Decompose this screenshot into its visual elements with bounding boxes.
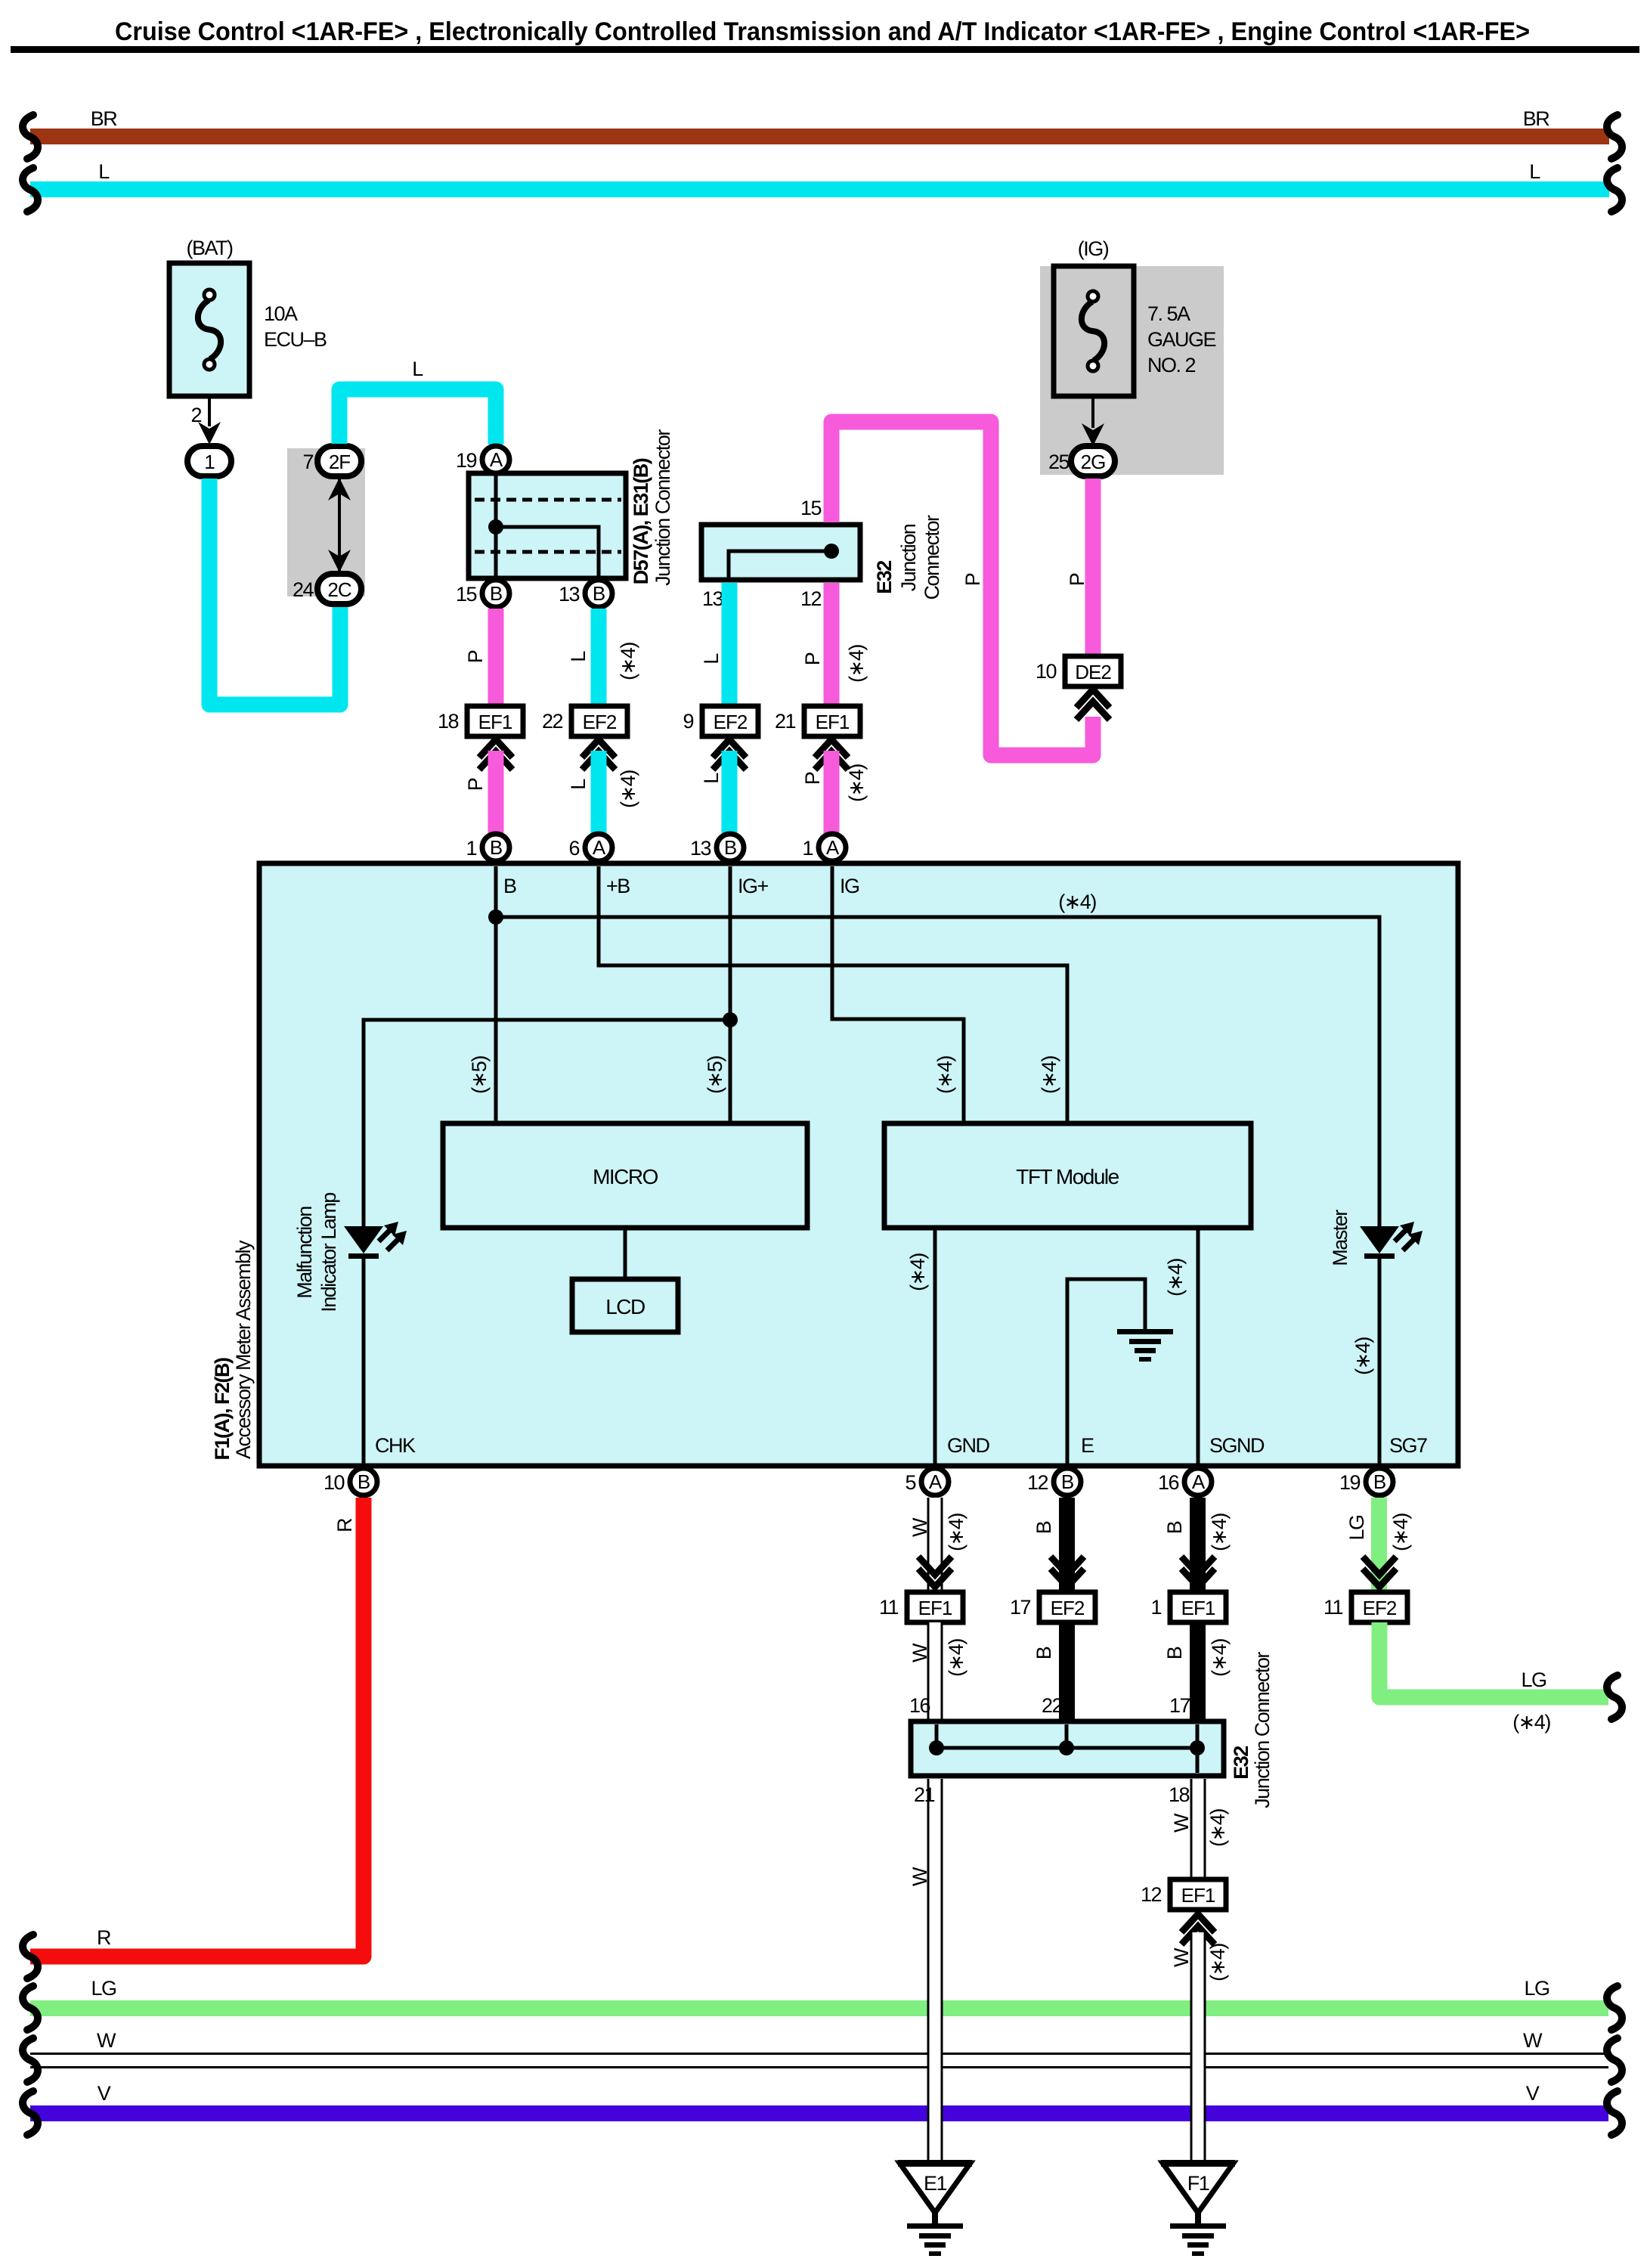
wire L bus (cyan) (23, 160, 1622, 212)
svg-text:A: A (929, 1470, 943, 1493)
svg-text:E: E (1081, 1434, 1094, 1457)
svg-text:(∗4): (∗4) (1351, 1337, 1374, 1375)
fuse holder box 2F/2C (grey) (287, 448, 365, 596)
net SGND internal (1164, 1228, 1198, 1464)
connector oval 2C (293, 574, 361, 604)
chevrons EF2 11 (1363, 1557, 1396, 1587)
pin 25 of fuse GAUGE (1048, 396, 1104, 473)
svg-text:19: 19 (1339, 1471, 1361, 1494)
wire L from EF2 to meter pin A6 (cyan) (567, 751, 639, 835)
svg-text:7: 7 (302, 451, 313, 473)
svg-text:B: B (358, 1470, 370, 1493)
svg-text:E32: E32 (873, 561, 896, 594)
label IG+ (738, 875, 769, 897)
svg-text:B: B (1163, 1521, 1186, 1534)
svg-text:12: 12 (800, 587, 822, 610)
svg-text:11: 11 (1323, 1596, 1343, 1619)
svg-text:6: 6 (568, 837, 579, 860)
connector EF2 11 (1323, 1592, 1407, 1622)
label CHK (375, 1434, 416, 1457)
wire W from E32 18 to EF1 12 (white) (1169, 1779, 1229, 1879)
svg-text:10A: 10A (264, 302, 298, 325)
svg-text:16: 16 (1158, 1471, 1179, 1494)
svg-text:L: L (700, 653, 723, 665)
label E32 top (873, 561, 896, 594)
title text (11, 17, 1639, 53)
label E32 bottom (1230, 1746, 1252, 1780)
label F1(A), F2(B) (211, 1358, 234, 1460)
svg-text:25: 25 (1048, 451, 1070, 473)
svg-text:(∗4): (∗4) (906, 1253, 929, 1291)
connector EF1 21 (775, 706, 860, 736)
label pin 15 E32 (800, 497, 822, 519)
svg-text:2: 2 (190, 404, 201, 426)
svg-text:B: B (490, 836, 502, 859)
wire W from EF1 11 to E32 16 (white) (909, 1622, 967, 1721)
svg-text:L: L (98, 160, 110, 183)
chevrons EF2 9 (713, 739, 746, 770)
svg-text:16: 16 (909, 1694, 930, 1717)
svg-text:(∗4): (∗4) (945, 1639, 967, 1677)
svg-text:P: P (961, 573, 984, 586)
svg-text:V: V (98, 2082, 111, 2105)
label Accessory Meter Assembly (232, 1240, 255, 1459)
wire LG from EF2 11 to right (light green) (1379, 1622, 1622, 1734)
connector EF1 11 (879, 1592, 963, 1622)
svg-text:EF1: EF1 (816, 711, 850, 733)
svg-text:IG+: IG+ (738, 875, 769, 897)
label pin 13 E32 (702, 587, 723, 610)
connector EF2 22 (542, 706, 627, 736)
svg-text:Junction Connector: Junction Connector (652, 429, 674, 586)
svg-text:EF1: EF1 (918, 1597, 952, 1619)
ground symbol internal (1117, 1329, 1173, 1362)
svg-text:12: 12 (1141, 1883, 1162, 1906)
wire LG from meter B19 to EF2 (light green) (1345, 1498, 1412, 1592)
svg-text:1: 1 (204, 451, 215, 473)
wire W from meter A5 to EF1 (white) (909, 1498, 967, 1592)
label IG (840, 875, 859, 897)
block TFT Module (884, 1123, 1251, 1228)
svg-text:10: 10 (1036, 660, 1057, 683)
meter pin A 1 (802, 834, 846, 861)
svg-text:B: B (503, 875, 516, 897)
svg-text:13: 13 (690, 837, 711, 860)
svg-text:F1: F1 (1187, 2172, 1209, 2195)
svg-text:(∗4): (∗4) (845, 645, 868, 683)
wire R bus (red) (23, 1498, 364, 1978)
wire L from E32 13 to EF2 (cyan) (700, 583, 729, 706)
wire P from E32 12 to EF1 (pink) (801, 583, 868, 706)
connector EF2 9 (683, 706, 758, 736)
svg-text:(∗4): (∗4) (617, 770, 639, 808)
internal wire D57 (488, 475, 599, 576)
label E32 Connector (921, 515, 943, 600)
block LCD (572, 1279, 678, 1332)
connector EF2 17 (1010, 1592, 1095, 1622)
svg-text:7. 5A: 7. 5A (1147, 302, 1190, 325)
svg-text:(∗5): (∗5) (704, 1056, 726, 1094)
svg-text:W: W (1523, 2029, 1543, 2052)
svg-text:LG: LG (1524, 1977, 1549, 2000)
svg-text:D57(A), E31(B): D57(A), E31(B) (630, 458, 652, 584)
meter pin B 13 (690, 834, 744, 861)
svg-text:(∗4): (∗4) (1164, 1259, 1187, 1297)
svg-text:A: A (593, 836, 606, 859)
svg-text:Junction: Junction (897, 524, 920, 591)
wire BR bus (brown) (23, 107, 1622, 159)
svg-text:Connector: Connector (921, 515, 943, 600)
wire MICRO to LCD (624, 1228, 627, 1279)
svg-text:13: 13 (559, 583, 580, 606)
label B (503, 875, 516, 897)
label D57 Junction Connector (652, 429, 674, 586)
connector oval 1 (187, 446, 231, 476)
svg-text:21: 21 (775, 710, 796, 733)
wire L from connector 1 to 2C (cyan) (209, 479, 340, 705)
wire W from EF1 12 to ground F1 (white) (1170, 1932, 1229, 2163)
wire V bus (violet) (23, 2082, 1622, 2135)
meter pin B 1 (466, 834, 509, 861)
svg-text:(∗4): (∗4) (1206, 1809, 1229, 1847)
svg-text:W: W (97, 2029, 116, 2052)
fuse F2 7.5A GAUGE NO.2 (IG) (1054, 237, 1216, 396)
svg-text:B: B (724, 836, 736, 859)
svg-text:EF1: EF1 (478, 711, 512, 733)
fuse F1 10A ECU-B (BAT) (169, 237, 327, 396)
svg-text:R: R (333, 1518, 356, 1532)
svg-text:MICRO: MICRO (593, 1165, 658, 1188)
label +B (606, 875, 630, 897)
wire B from meter A16 to EF1 (black) (1163, 1498, 1231, 1592)
svg-text:22: 22 (1042, 1694, 1063, 1717)
svg-text:B: B (1032, 1647, 1055, 1659)
label E32 Junction (897, 524, 920, 591)
svg-text:+B: +B (606, 875, 630, 897)
accessory meter assembly box (259, 863, 1458, 1466)
wire P from 2G to DE2 (pink) (1085, 479, 1101, 656)
net +B internal (599, 866, 1067, 1123)
svg-text:18: 18 (438, 710, 459, 733)
svg-text:(BAT): (BAT) (187, 237, 233, 259)
svg-text:W: W (909, 1643, 931, 1662)
svg-text:15: 15 (800, 497, 822, 519)
label GND (947, 1434, 990, 1457)
svg-text:GND: GND (947, 1434, 990, 1457)
svg-text:17: 17 (1010, 1596, 1031, 1619)
wire LG bus (light green) (23, 1977, 1622, 2030)
ground F1 (1161, 2160, 1235, 2256)
svg-text:B: B (490, 582, 502, 605)
svg-text:(∗4): (∗4) (1038, 1056, 1060, 1094)
label pin 12 E32 (800, 587, 822, 610)
svg-text:A: A (826, 836, 840, 859)
net GND internal (906, 1228, 935, 1464)
svg-text:5: 5 (905, 1471, 915, 1494)
junction connector E32 (top) box (701, 525, 860, 580)
svg-text:Master: Master (1329, 1210, 1351, 1266)
svg-text:12: 12 (1027, 1471, 1048, 1494)
svg-text:(∗5): (∗5) (468, 1056, 491, 1094)
net E internal (1067, 1279, 1145, 1464)
svg-text:LG: LG (91, 1977, 116, 2000)
svg-text:P: P (464, 650, 487, 663)
LED malfunction indicator lamp (293, 1193, 407, 1464)
meter pin B 12 E (1027, 1468, 1081, 1495)
chevrons DE2 (1076, 689, 1110, 720)
svg-text:(∗4): (∗4) (933, 1056, 956, 1094)
svg-text:EF2: EF2 (714, 711, 748, 733)
svg-text:(∗4): (∗4) (617, 643, 639, 680)
label SG7 (1389, 1434, 1427, 1457)
svg-text:ECU–B: ECU–B (264, 328, 327, 351)
svg-text:(∗4): (∗4) (1206, 1944, 1229, 1981)
meter pin A 6 (568, 834, 612, 861)
chevrons EF2 22 (582, 739, 615, 770)
svg-text:SGND: SGND (1209, 1434, 1265, 1457)
label SGND (1209, 1434, 1265, 1457)
svg-text:19: 19 (456, 449, 477, 472)
chevrons EF1 11 (918, 1557, 952, 1587)
svg-text:11: 11 (879, 1596, 899, 1619)
svg-text:A: A (1192, 1470, 1206, 1493)
pin A 19 of D57 (456, 446, 509, 473)
svg-text:W: W (1170, 1947, 1193, 1967)
svg-text:L: L (700, 773, 723, 784)
wire B from EF1 1 to E32 17 (black) (1163, 1622, 1231, 1721)
svg-text:17: 17 (1169, 1694, 1190, 1717)
svg-text:LG: LG (1521, 1668, 1546, 1691)
wire L from 2F to D57 pin A (cyan) (339, 358, 496, 445)
svg-text:(∗4): (∗4) (945, 1514, 967, 1551)
svg-text:1: 1 (466, 837, 476, 860)
svg-text:13: 13 (702, 587, 723, 610)
double arrow between 2F and 2C (328, 478, 351, 572)
svg-text:(∗4): (∗4) (845, 764, 868, 802)
wire P from EF1 to meter pin B1 (pink) (464, 751, 496, 835)
svg-text:(IG): (IG) (1078, 237, 1109, 260)
svg-text:18: 18 (1169, 1783, 1190, 1806)
wire P from D57 B15 to EF1 (pink) (464, 609, 496, 706)
wire B from meter B12 to EF2 (black) (1032, 1498, 1075, 1592)
LED master warning lamp (1329, 1210, 1423, 1464)
meter pin A 16 SGND (1158, 1468, 1212, 1495)
label E32 bottom Junction Connector (1251, 1652, 1274, 1808)
svg-text:F1(A), F2(B): F1(A), F2(B) (211, 1358, 234, 1460)
label D57(A), E31(B) (630, 458, 652, 584)
meter pin B 10 CHK (324, 1468, 377, 1495)
net IG+ internal (364, 866, 738, 1226)
svg-text:B: B (1061, 1470, 1073, 1493)
connector DE2 10 (1036, 656, 1121, 686)
svg-text:A: A (490, 448, 503, 471)
svg-text:IG: IG (840, 875, 859, 897)
net B internal (468, 866, 1379, 1226)
svg-text:B: B (1373, 1470, 1385, 1493)
svg-text:L: L (412, 358, 423, 380)
svg-text:(∗4): (∗4) (1058, 891, 1096, 913)
chevrons EF1 21 (815, 739, 848, 770)
connector oval 2F (302, 446, 361, 476)
svg-text:LCD: LCD (605, 1295, 645, 1318)
svg-text:Cruise Control <1AR-FE> , Elec: Cruise Control <1AR-FE> , Electronically… (115, 17, 1530, 46)
svg-text:V: V (1526, 2082, 1540, 2105)
svg-text:(∗4): (∗4) (1208, 1514, 1231, 1551)
svg-text:(∗4): (∗4) (1512, 1711, 1550, 1734)
svg-text:B: B (1032, 1521, 1055, 1534)
pin B 13 of D57 (559, 580, 612, 607)
svg-text:1: 1 (1150, 1596, 1161, 1619)
svg-text:9: 9 (683, 710, 693, 733)
chevrons EF1 1 (1181, 1557, 1215, 1587)
wire P from EF1 21 to meter pin A1 (pink) (801, 751, 868, 835)
svg-text:NO. 2: NO. 2 (1147, 354, 1196, 376)
ground E1 (898, 2160, 972, 2256)
chevrons EF1 18 (479, 739, 512, 770)
svg-text:P: P (801, 652, 824, 665)
svg-text:BR: BR (91, 107, 118, 130)
svg-text:Indicator Lamp: Indicator Lamp (317, 1193, 340, 1312)
wire L from EF2 9 to meter pin B13 (cyan) (700, 751, 729, 835)
pin 2 of fuse ECU-B (190, 396, 221, 445)
svg-text:W: W (1170, 1813, 1193, 1833)
junction connector E32 (bottom) box (911, 1721, 1224, 1776)
meter pin B 19 SG7 (1339, 1468, 1393, 1495)
internal wire E32 top (729, 544, 839, 578)
svg-text:EF2: EF2 (1051, 1597, 1085, 1619)
wire L from D57 B13 to EF2 (cyan) (567, 609, 639, 706)
svg-text:W: W (909, 1867, 931, 1886)
connector EF1 18 (438, 706, 523, 736)
connector EF1 1 (1150, 1592, 1226, 1622)
svg-text:E1: E1 (924, 2172, 947, 2195)
svg-text:Junction Connector: Junction Connector (1251, 1652, 1274, 1808)
svg-text:22: 22 (542, 710, 563, 733)
svg-text:24: 24 (293, 578, 314, 601)
svg-text:(∗4): (∗4) (1389, 1514, 1412, 1551)
block MICRO (443, 1123, 807, 1228)
svg-text:L: L (567, 779, 590, 790)
wire B from EF2 17 to E32 22 (black) (1032, 1622, 1075, 1721)
svg-text:EF1: EF1 (1181, 1597, 1215, 1619)
svg-text:P: P (801, 772, 824, 785)
svg-text:E32: E32 (1230, 1746, 1252, 1780)
svg-text:CHK: CHK (375, 1434, 416, 1457)
svg-text:W: W (909, 1517, 931, 1537)
svg-text:EF1: EF1 (1181, 1884, 1215, 1907)
svg-text:B: B (1163, 1647, 1186, 1659)
svg-text:1: 1 (802, 837, 813, 860)
svg-text:2C: 2C (327, 578, 351, 601)
svg-text:2G: 2G (1081, 451, 1106, 473)
chevrons EF1 12 (1181, 1914, 1215, 1944)
svg-text:R: R (97, 1926, 111, 1949)
svg-text:GAUGE: GAUGE (1147, 328, 1216, 351)
svg-text:EF2: EF2 (583, 711, 617, 733)
svg-text:21: 21 (914, 1783, 935, 1806)
svg-text:15: 15 (456, 583, 477, 606)
svg-text:B: B (593, 582, 605, 605)
svg-text:LG: LG (1345, 1515, 1368, 1540)
chevrons EF2 17 (1051, 1557, 1084, 1587)
label E (1081, 1434, 1094, 1457)
wire P loop DE2 to E32 15 (pink) (831, 422, 1093, 755)
svg-text:Accessory Meter Assembly: Accessory Meter Assembly (232, 1240, 255, 1459)
svg-text:Malfunction: Malfunction (293, 1207, 316, 1299)
svg-text:10: 10 (324, 1471, 345, 1494)
svg-text:L: L (567, 651, 590, 662)
meter pin A 5 GND (905, 1468, 949, 1495)
svg-text:(∗4): (∗4) (1208, 1639, 1231, 1677)
svg-text:2F: 2F (329, 451, 350, 473)
svg-text:P: P (464, 778, 487, 791)
wire W from E32 21 to ground E1 (white) (909, 1779, 943, 2163)
svg-text:TFT Module: TFT Module (1016, 1165, 1119, 1188)
pin B 15 of D57 (456, 580, 509, 607)
junction connector D57(A)/E31(B) box (469, 473, 626, 578)
svg-text:DE2: DE2 (1075, 661, 1111, 683)
svg-text:BR: BR (1523, 107, 1550, 130)
svg-text:L: L (1529, 160, 1540, 183)
fuse holder box GAUGE (grey) (1040, 266, 1224, 475)
svg-text:SG7: SG7 (1389, 1434, 1427, 1457)
wire W bus (white) (23, 2029, 1622, 2082)
connector oval 2G (1071, 446, 1115, 476)
svg-text:EF2: EF2 (1363, 1597, 1397, 1619)
connector EF1 12 (1141, 1879, 1226, 1910)
internal wire E32 bottom (929, 1724, 1205, 1773)
net IG internal (832, 866, 964, 1123)
